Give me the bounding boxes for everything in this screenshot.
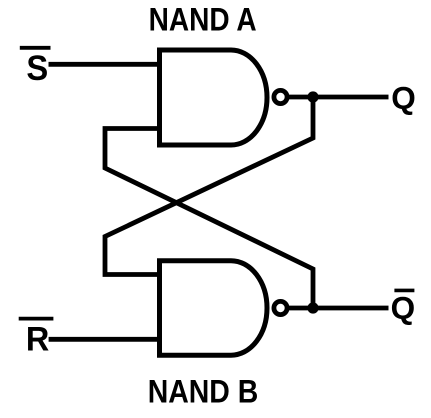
overbar of Q-bar xyxy=(394,289,414,293)
wire: node Q to Q label xyxy=(313,95,389,100)
wire: feedback from node Q-bar to NAND A input pin 2 xyxy=(105,129,313,309)
nand gate A output bubble xyxy=(274,90,287,103)
svg-text:Q: Q xyxy=(391,80,416,116)
nand gate A (U1) body xyxy=(160,50,268,145)
nand gate B output bubble xyxy=(274,301,287,314)
svg-text:Q: Q xyxy=(391,290,416,326)
svg-text:R: R xyxy=(26,321,49,359)
wire: S-bar to NAND A input pin 1 xyxy=(49,62,162,67)
junction node Q-bar xyxy=(307,302,318,313)
svg-text:NAND A: NAND A xyxy=(149,2,257,38)
svg-text:S: S xyxy=(26,49,48,89)
wire: NAND A bubble to node Q xyxy=(287,95,315,100)
overbar of R xyxy=(19,317,54,321)
junction node Q xyxy=(307,91,318,102)
wire: R-bar to NAND B input pin 2 xyxy=(49,337,161,342)
wire: NAND B bubble to node Q-bar xyxy=(287,306,315,311)
wire: node Q-bar to Q-bar label xyxy=(313,306,389,311)
overbar of S xyxy=(20,46,51,50)
svg-text:NAND B: NAND B xyxy=(148,373,259,410)
nand gate B (U2) body xyxy=(160,261,268,356)
wire: feedback from node Q to NAND B input pin 1 xyxy=(105,97,313,275)
